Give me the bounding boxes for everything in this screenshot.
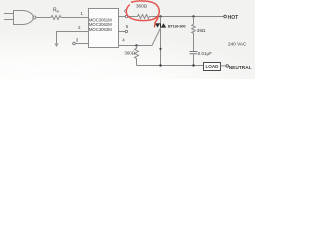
NAND gate body [14,11,34,25]
LOAD box [204,63,221,71]
junction: MT1 to rail [159,64,161,66]
junction: snubber bottom [192,64,194,66]
svg-text:LOAD: LOAD [205,64,219,69]
junction on MT1 [159,48,161,50]
bottom rail wire [137,65,204,67]
NEUTRAL terminal [226,65,229,68]
capacitor C1 0.01uF [190,52,198,54]
svg-text:Rin: Rin [53,8,59,14]
junction: gate resistor tap [135,44,137,46]
pin 5 stub wire [119,31,126,33]
wire: NAND output to resistor Rin [36,17,51,19]
svg-text:0.01μF: 0.01μF [198,51,212,56]
wire: triac MT1 down [160,28,162,66]
resistor Rin [51,16,61,20]
NAND gate input wire B [4,19,14,21]
ground [56,38,58,44]
wire: resistor Rin to pin 1 [61,17,89,19]
junction: triac MT2 [159,15,161,17]
resistor 39ohm snubber [192,17,196,52]
wire: HOT rail [150,16,224,18]
svg-text:39Ω: 39Ω [197,28,206,33]
pin 5 no-connect circle [125,30,127,32]
junction: snubber top [192,15,194,17]
triac Q1 left triangle [155,23,160,27]
resistor 360ohm top (circled) [138,15,150,19]
annotation: red circle around 360 ohm [126,1,159,27]
svg-text:360Ω: 360Ω [136,4,148,9]
svg-text:HOT: HOT [228,15,239,21]
triac Q1 right triangle [161,23,166,27]
pin 6 terminal circle [125,15,127,17]
svg-text:240 VAC: 240 VAC [228,41,247,46]
wire: MT2 drop to triac [160,17,162,24]
NAND gate output bubble [33,16,36,19]
pin 3 stub wire [75,43,88,45]
pin 4 wire [119,45,153,47]
wire: pin 6 circle to resistor [128,16,138,18]
svg-text:BT136-600: BT136-600 [168,25,186,29]
NAND gate input wire A [4,13,14,15]
optocoupler U1 MOC306xM box [89,9,119,48]
HOT terminal [224,15,227,18]
wire: LOAD to NEUTRAL [221,65,226,67]
svg-text:MOC3063M: MOC3063M [89,27,112,32]
wire: gate lead diagonal [152,28,160,45]
resistor 360ohm gate [135,46,139,66]
triac bar segment [160,23,162,27]
svg-text:360Ω: 360Ω [124,50,135,55]
pin 2 wire [57,32,89,39]
pin 3 no-connect circle [73,42,76,45]
pin 6 stub wire [119,16,126,18]
svg-text:NEUTRAL: NEUTRAL [229,65,252,71]
